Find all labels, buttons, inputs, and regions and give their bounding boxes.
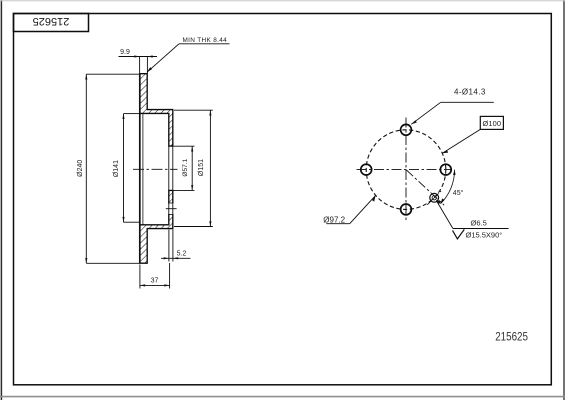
dimension D57.1 bbox=[174, 146, 195, 190]
dimension D240 bbox=[86, 74, 139, 263]
countersunk hole outer bbox=[430, 193, 439, 202]
countersunk hole inner bbox=[432, 196, 436, 200]
svg-text:9.9: 9.9 bbox=[120, 49, 130, 56]
dimension D141 bbox=[124, 114, 140, 223]
svg-text:5.2: 5.2 bbox=[177, 251, 187, 258]
countersunk hole perpendicular centerline tick bbox=[427, 191, 441, 205]
svg-text:MIN THK 8.44: MIN THK 8.44 bbox=[183, 37, 228, 44]
svg-text:Ø6.5: Ø6.5 bbox=[471, 218, 487, 227]
svg-text:Ø151: Ø151 bbox=[198, 159, 205, 176]
bolt hole E bbox=[440, 164, 451, 175]
leader MIN THK 8.44 bbox=[147, 44, 230, 73]
svg-text:Ø240: Ø240 bbox=[77, 160, 84, 177]
dimension 5.2 bbox=[161, 230, 191, 262]
dimension 9.9 bbox=[119, 57, 158, 74]
svg-text:Ø141: Ø141 bbox=[113, 160, 120, 177]
45deg centerline to small hole bbox=[407, 170, 445, 205]
section lower half (hatched) bbox=[140, 190, 173, 263]
label D6.5 / countersink D15.5x90 with leader bbox=[436, 201, 453, 229]
hat step visible edge bbox=[142, 113, 144, 224]
bolt hole W bbox=[361, 164, 372, 175]
sheet left edge bbox=[0, 0, 2, 400]
dimension D151 bbox=[174, 110, 213, 226]
svg-text:Ø100: Ø100 bbox=[482, 119, 501, 128]
sheet right edge bbox=[563, 0, 565, 400]
view centerline bbox=[133, 168, 178, 170]
hub bore edge left bbox=[168, 146, 170, 190]
vertical centerline bbox=[405, 118, 407, 223]
label 4-D14.3 with leader bbox=[411, 102, 494, 124]
svg-text:37: 37 bbox=[151, 278, 159, 285]
section upper half (hatched) bbox=[140, 74, 173, 146]
bolt circle (dashed) bbox=[366, 130, 446, 210]
bolt hole N bbox=[401, 124, 412, 135]
bolt hole S bbox=[401, 204, 412, 215]
hub bore edge right bbox=[172, 146, 174, 190]
disc outboard face thick line bbox=[139, 73, 141, 263]
title block box bbox=[14, 14, 89, 32]
countersink V symbol bbox=[453, 229, 465, 239]
svg-text:Ø15.5X90°: Ø15.5X90° bbox=[466, 230, 503, 239]
sheet top edge bbox=[0, 0, 565, 2]
sectioned bolt hole gap in hat face bbox=[168, 203, 174, 214]
sheet bottom edge bbox=[0, 396, 565, 398]
label D100 boxed with leader bbox=[480, 116, 503, 129]
svg-text:Ø97.2: Ø97.2 bbox=[323, 215, 345, 224]
horizontal centerline bbox=[357, 169, 451, 171]
svg-text:4-Ø14.3: 4-Ø14.3 bbox=[454, 88, 486, 97]
bolt hole centerline tick bbox=[166, 208, 177, 210]
svg-text:215625: 215625 bbox=[495, 332, 528, 344]
45 degree arc dimension bbox=[440, 170, 454, 204]
svg-text:Ø57.1: Ø57.1 bbox=[182, 158, 189, 176]
svg-text:45°: 45° bbox=[453, 189, 464, 197]
svg-text:215625: 215625 bbox=[33, 15, 70, 27]
dimension 37 bbox=[140, 263, 170, 289]
